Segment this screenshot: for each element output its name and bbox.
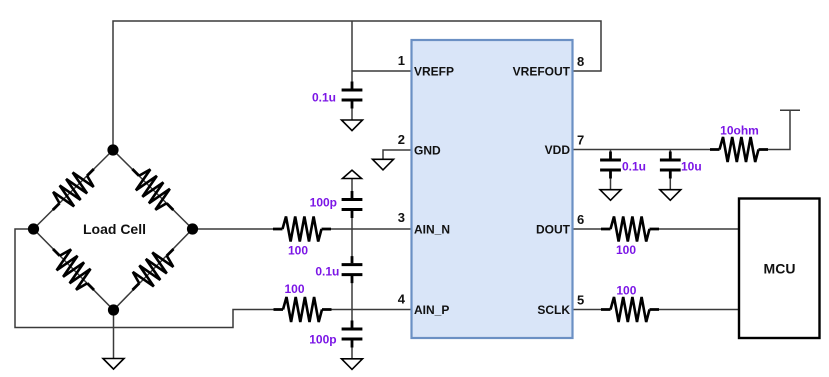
svg-text:100p: 100p — [309, 333, 336, 347]
svg-text:AIN_P: AIN_P — [414, 303, 449, 317]
svg-text:1: 1 — [398, 53, 405, 68]
svg-text:DOUT: DOUT — [536, 222, 571, 236]
svg-text:3: 3 — [398, 210, 405, 225]
svg-text:100p: 100p — [310, 195, 337, 209]
svg-text:VDD: VDD — [545, 143, 571, 157]
svg-text:MCU: MCU — [764, 261, 796, 277]
svg-text:2: 2 — [398, 132, 405, 147]
svg-text:100: 100 — [284, 282, 304, 296]
svg-text:100: 100 — [616, 243, 636, 257]
svg-text:5: 5 — [577, 293, 584, 308]
svg-text:0.1u: 0.1u — [315, 264, 339, 278]
svg-text:4: 4 — [398, 292, 406, 307]
svg-text:Load Cell: Load Cell — [83, 221, 146, 237]
svg-text:100: 100 — [616, 284, 636, 298]
svg-text:SCLK: SCLK — [537, 303, 570, 317]
svg-text:VREFOUT: VREFOUT — [513, 64, 571, 78]
svg-text:AIN_N: AIN_N — [414, 222, 450, 236]
svg-text:100: 100 — [288, 244, 308, 258]
svg-text:VREFP: VREFP — [414, 64, 454, 78]
svg-text:0.1u: 0.1u — [622, 160, 646, 174]
svg-text:0.1u: 0.1u — [312, 91, 336, 105]
svg-text:8: 8 — [577, 54, 584, 69]
svg-text:7: 7 — [577, 133, 584, 148]
svg-text:10u: 10u — [681, 160, 702, 174]
svg-text:GND: GND — [414, 143, 441, 157]
svg-text:6: 6 — [577, 212, 584, 227]
svg-text:10ohm: 10ohm — [720, 124, 759, 138]
